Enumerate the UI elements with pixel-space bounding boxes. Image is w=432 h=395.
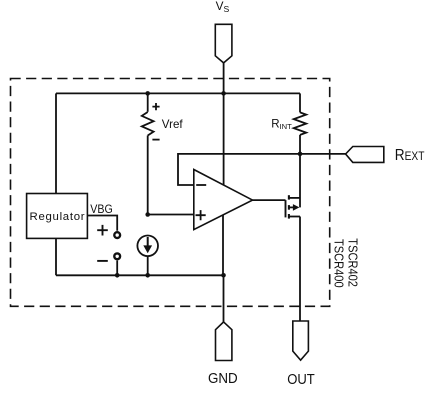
label GND	[208, 370, 238, 387]
plus sign Vref	[152, 103, 159, 110]
svg-text:Regulator: Regulator	[30, 211, 86, 223]
op-amp U1	[194, 170, 253, 230]
wire REXT node to transistor source (top)	[299, 154, 301, 208]
wire transistor drain to OUT pin	[299, 217, 301, 322]
svg-text:TSCR400: TSCR400	[331, 239, 346, 288]
junction dot Vref / top rail	[145, 91, 150, 96]
dashed IC boundary box	[11, 79, 330, 307]
pin OUT	[293, 321, 309, 360]
plus sign VBG terminal	[97, 225, 108, 236]
bottom ground rail	[56, 274, 224, 276]
pin GND	[216, 322, 232, 361]
wire top rail to RINT resistor	[299, 93, 301, 112]
wire feedback REXT node to inverting input	[178, 154, 300, 185]
regulator block	[27, 194, 88, 239]
wire VS pin to top rail	[223, 63, 225, 94]
wire op-amp output to transistor gate	[253, 199, 286, 201]
wire regulator bottom to ground rail	[55, 238, 57, 275]
minus sign VBG terminal	[97, 260, 108, 262]
pin REXT	[346, 147, 384, 163]
terminal circle VBG plus	[114, 232, 120, 238]
label VBG	[90, 203, 113, 215]
top supply rail	[56, 92, 300, 94]
wire RINT resistor to REXT node	[299, 135, 301, 154]
wire VBG regulator output to + terminal	[87, 216, 117, 231]
label OUT	[287, 371, 315, 388]
resistor Vref	[142, 112, 154, 136]
wire op-amp V- supply to ground rail	[222, 215, 224, 275]
junction dot non-inverting input node	[145, 212, 150, 217]
resistor RINT	[294, 112, 307, 134]
current source I1	[137, 236, 158, 257]
pin VS	[215, 24, 232, 63]
junction dot VBG minus / ground rail	[115, 273, 120, 278]
wire top rail to regulator	[55, 93, 57, 193]
wire current source to ground rail	[147, 256, 149, 275]
op-amp non-inverting input mark	[196, 210, 206, 220]
wire node to op-amp non-inverting input	[148, 214, 194, 216]
svg-text:GND: GND	[208, 370, 238, 387]
wire REXT node to REXT pin	[300, 153, 346, 155]
wire ground rail to GND pin	[223, 275, 225, 322]
junction dot REXT node	[298, 152, 303, 157]
svg-text:REXT: REXT	[395, 147, 425, 164]
svg-text:OUT: OUT	[287, 371, 315, 388]
minus sign Vref	[152, 139, 159, 141]
transistor M1 pass MOSFET	[286, 195, 301, 218]
svg-text:VBG: VBG	[90, 203, 113, 215]
junction dot current source / ground rail	[145, 273, 150, 278]
label TSCR402	[345, 238, 360, 287]
wire top rail to Vref resistor	[147, 93, 149, 111]
junction dot VS / top rail	[221, 91, 226, 96]
op-amp inverting input mark	[196, 184, 206, 186]
wire Vref resistor to non-inverting input node	[147, 136, 149, 215]
label REXT	[395, 147, 425, 164]
wire VS rail down to op-amp V+ supply	[223, 93, 225, 185]
terminal circle VBG minus	[114, 253, 120, 259]
junction dot op-amp V- / ground rail	[221, 273, 226, 278]
wire VBG minus terminal to ground rail	[116, 261, 118, 276]
label TSCR400	[331, 239, 346, 288]
svg-text:Vref: Vref	[162, 118, 184, 131]
